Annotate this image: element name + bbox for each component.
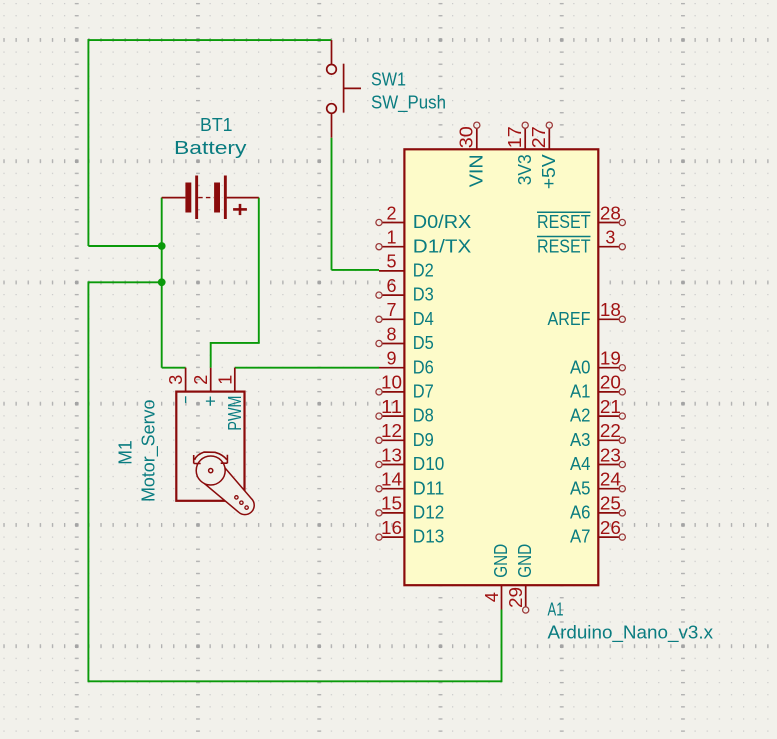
svg-text:16: 16 [381,518,402,538]
pin 4 (GND) [482,544,511,610]
svg-text:D3: D3 [413,285,434,305]
svg-text:27: 27 [529,126,549,148]
motor M1 pin 1 (PWM) [215,368,245,431]
pin 29 (GND) [506,544,535,613]
pin 7 (D4) [376,300,434,329]
wire left vertical lower [87,281,89,681]
pin 15 (D12) [376,494,444,523]
svg-text:GND: GND [515,544,535,578]
svg-text:13: 13 [381,445,402,465]
svg-text:A1: A1 [570,382,591,402]
pin 23 (A4) [570,445,625,474]
svg-text:D4: D4 [413,309,434,329]
pin 13 (D10) [376,445,444,474]
wire top horizontal BT1- to SW1 [88,39,332,41]
junction B [158,278,166,286]
svg-text:A0: A0 [570,357,591,377]
svg-text:29: 29 [506,587,526,608]
svg-text:D2: D2 [413,261,434,281]
wire vertical up to pin 4 [501,610,503,683]
svg-text:A1: A1 [548,600,564,620]
pin 28 (RESET) [537,203,625,232]
svg-text:A2: A2 [570,406,591,426]
wire battery plus lead down [258,198,260,343]
motor M1 rotation arrow arc [194,452,228,463]
svg-text:24: 24 [600,470,621,490]
svg-text:D7: D7 [413,382,434,402]
pin 20 (A1) [570,373,625,402]
svg-text:A3: A3 [570,430,591,450]
pin 18 (AREF) [548,300,626,329]
wire servo pin 3 stub [162,367,186,369]
svg-text:18: 18 [600,300,621,320]
svg-text:D6: D6 [413,357,434,377]
svg-text:17: 17 [505,126,525,148]
pin 2 (D0/RX) [376,203,471,232]
svg-text:Motor_Servo: Motor_Servo [139,400,160,503]
pin 6 (D3) [376,276,434,305]
svg-text:D11: D11 [413,478,445,498]
svg-text:D0/RX: D0/RX [413,212,472,232]
svg-text:26: 26 [600,518,621,538]
motor M1 pin 2 (+) [191,368,221,407]
svg-text:Arduino_Nano_v3.x: Arduino_Nano_v3.x [548,623,714,644]
svg-text:VIN: VIN [467,154,487,187]
svg-text:8: 8 [386,324,396,344]
wire horizontal to junction A [88,245,161,247]
svg-text:1: 1 [386,228,396,248]
svg-text:12: 12 [381,421,402,441]
svg-text:A4: A4 [570,454,591,474]
svg-text:3V3: 3V3 [515,154,535,185]
svg-text:Battery: Battery [174,138,247,158]
svg-text:D5: D5 [413,333,434,353]
svg-text:D10: D10 [413,454,445,474]
motor M1 horn center hole [209,469,213,473]
pin 30 (VIN) [457,122,487,187]
svg-text:RESET: RESET [537,212,591,232]
junction A [158,242,166,250]
svg-text:20: 20 [600,373,621,393]
svg-text:1: 1 [215,375,235,385]
pin 24 (A5) [570,470,625,499]
switch SW1 actuator [344,64,361,113]
wire SW1 bottom to D2 vertical [331,138,333,270]
svg-text:2: 2 [191,375,211,385]
wire horizontal battery plus to servo pin 2 [211,342,260,344]
svg-text:D1/TX: D1/TX [413,236,472,256]
wire left vertical upper [87,39,89,246]
pin 11 (D8) [376,397,434,426]
svg-text:10: 10 [381,373,402,393]
pin 26 (A7) [570,518,625,547]
svg-text:5: 5 [386,252,396,272]
svg-text:BT1: BT1 [200,115,233,135]
svg-text:PWM: PWM [225,396,245,431]
battery BT1 [162,176,259,220]
svg-text:+: + [201,396,221,407]
pin 25 (A6) [570,494,625,523]
svg-text:D8: D8 [413,406,434,426]
svg-text:21: 21 [600,397,621,417]
svg-text:RESET: RESET [537,236,591,256]
svg-text:SW_Push: SW_Push [371,93,446,114]
switch SW1 pin 1 [327,40,337,74]
svg-text:15: 15 [381,494,402,514]
svg-text:3: 3 [166,375,186,385]
svg-text:25: 25 [600,494,621,514]
motor M1 body [176,392,244,501]
pin 16 (D13) [376,518,444,547]
wire bottom horizontal to GND pin 4 [88,680,502,682]
svg-text:23: 23 [600,445,621,465]
svg-text:2: 2 [386,203,396,223]
motor M1 horn arm [204,467,254,515]
svg-text:A5: A5 [570,478,591,498]
pin 5 (D2) [379,252,434,281]
wire SW1 to D2 horizontal [332,269,380,271]
svg-text:9: 9 [386,349,396,369]
svg-text:−: − [176,396,196,404]
pin 21 (A2) [570,397,625,426]
svg-text:SW1: SW1 [371,69,406,89]
svg-text:M1: M1 [115,440,135,465]
svg-text:6: 6 [386,276,396,296]
motor M1 horn disc [196,456,225,485]
svg-text:28: 28 [600,203,621,223]
svg-text:14: 14 [381,470,402,490]
svg-text:A6: A6 [570,503,591,523]
pin 17 (3V3) [505,122,535,185]
battery plus sign [233,204,247,215]
svg-text:D9: D9 [413,430,434,450]
pin 14 (D11) [376,470,444,499]
pin 3 (RESET) [537,228,625,257]
wire servo pin 1 to D6 [235,367,379,369]
pin 9 (D6) [379,349,434,378]
motor M1 pin 3 (-) [166,368,196,404]
svg-text:A7: A7 [570,527,591,547]
svg-text:7: 7 [386,300,396,320]
pin 1 (D1/TX) [376,228,471,257]
motor M1 horn holes [235,496,249,510]
svg-text:+5V: +5V [539,154,559,189]
pin 22 (A3) [570,421,625,450]
svg-text:3: 3 [605,228,615,248]
svg-text:D12: D12 [413,503,445,523]
svg-text:AREF: AREF [548,309,591,329]
wire vertical into servo pin 2 [210,342,212,368]
pin 10 (D7) [376,373,434,402]
svg-text:19: 19 [600,349,621,369]
svg-text:GND: GND [491,544,511,578]
svg-text:22: 22 [600,421,621,441]
svg-text:D13: D13 [413,527,445,547]
wire battery minus lead down to servo [161,198,163,368]
pin 27 (+5V) [529,122,559,189]
switch SW1 pin 2 [327,104,337,138]
pin 19 (A0) [570,349,625,378]
svg-text:30: 30 [457,126,477,148]
wire horizontal to junction B [88,281,161,283]
svg-text:11: 11 [381,397,402,417]
pin 8 (D5) [376,324,434,353]
pin 12 (D9) [376,421,434,450]
svg-text:4: 4 [482,592,502,602]
IC A1 Arduino Nano body [404,149,598,585]
